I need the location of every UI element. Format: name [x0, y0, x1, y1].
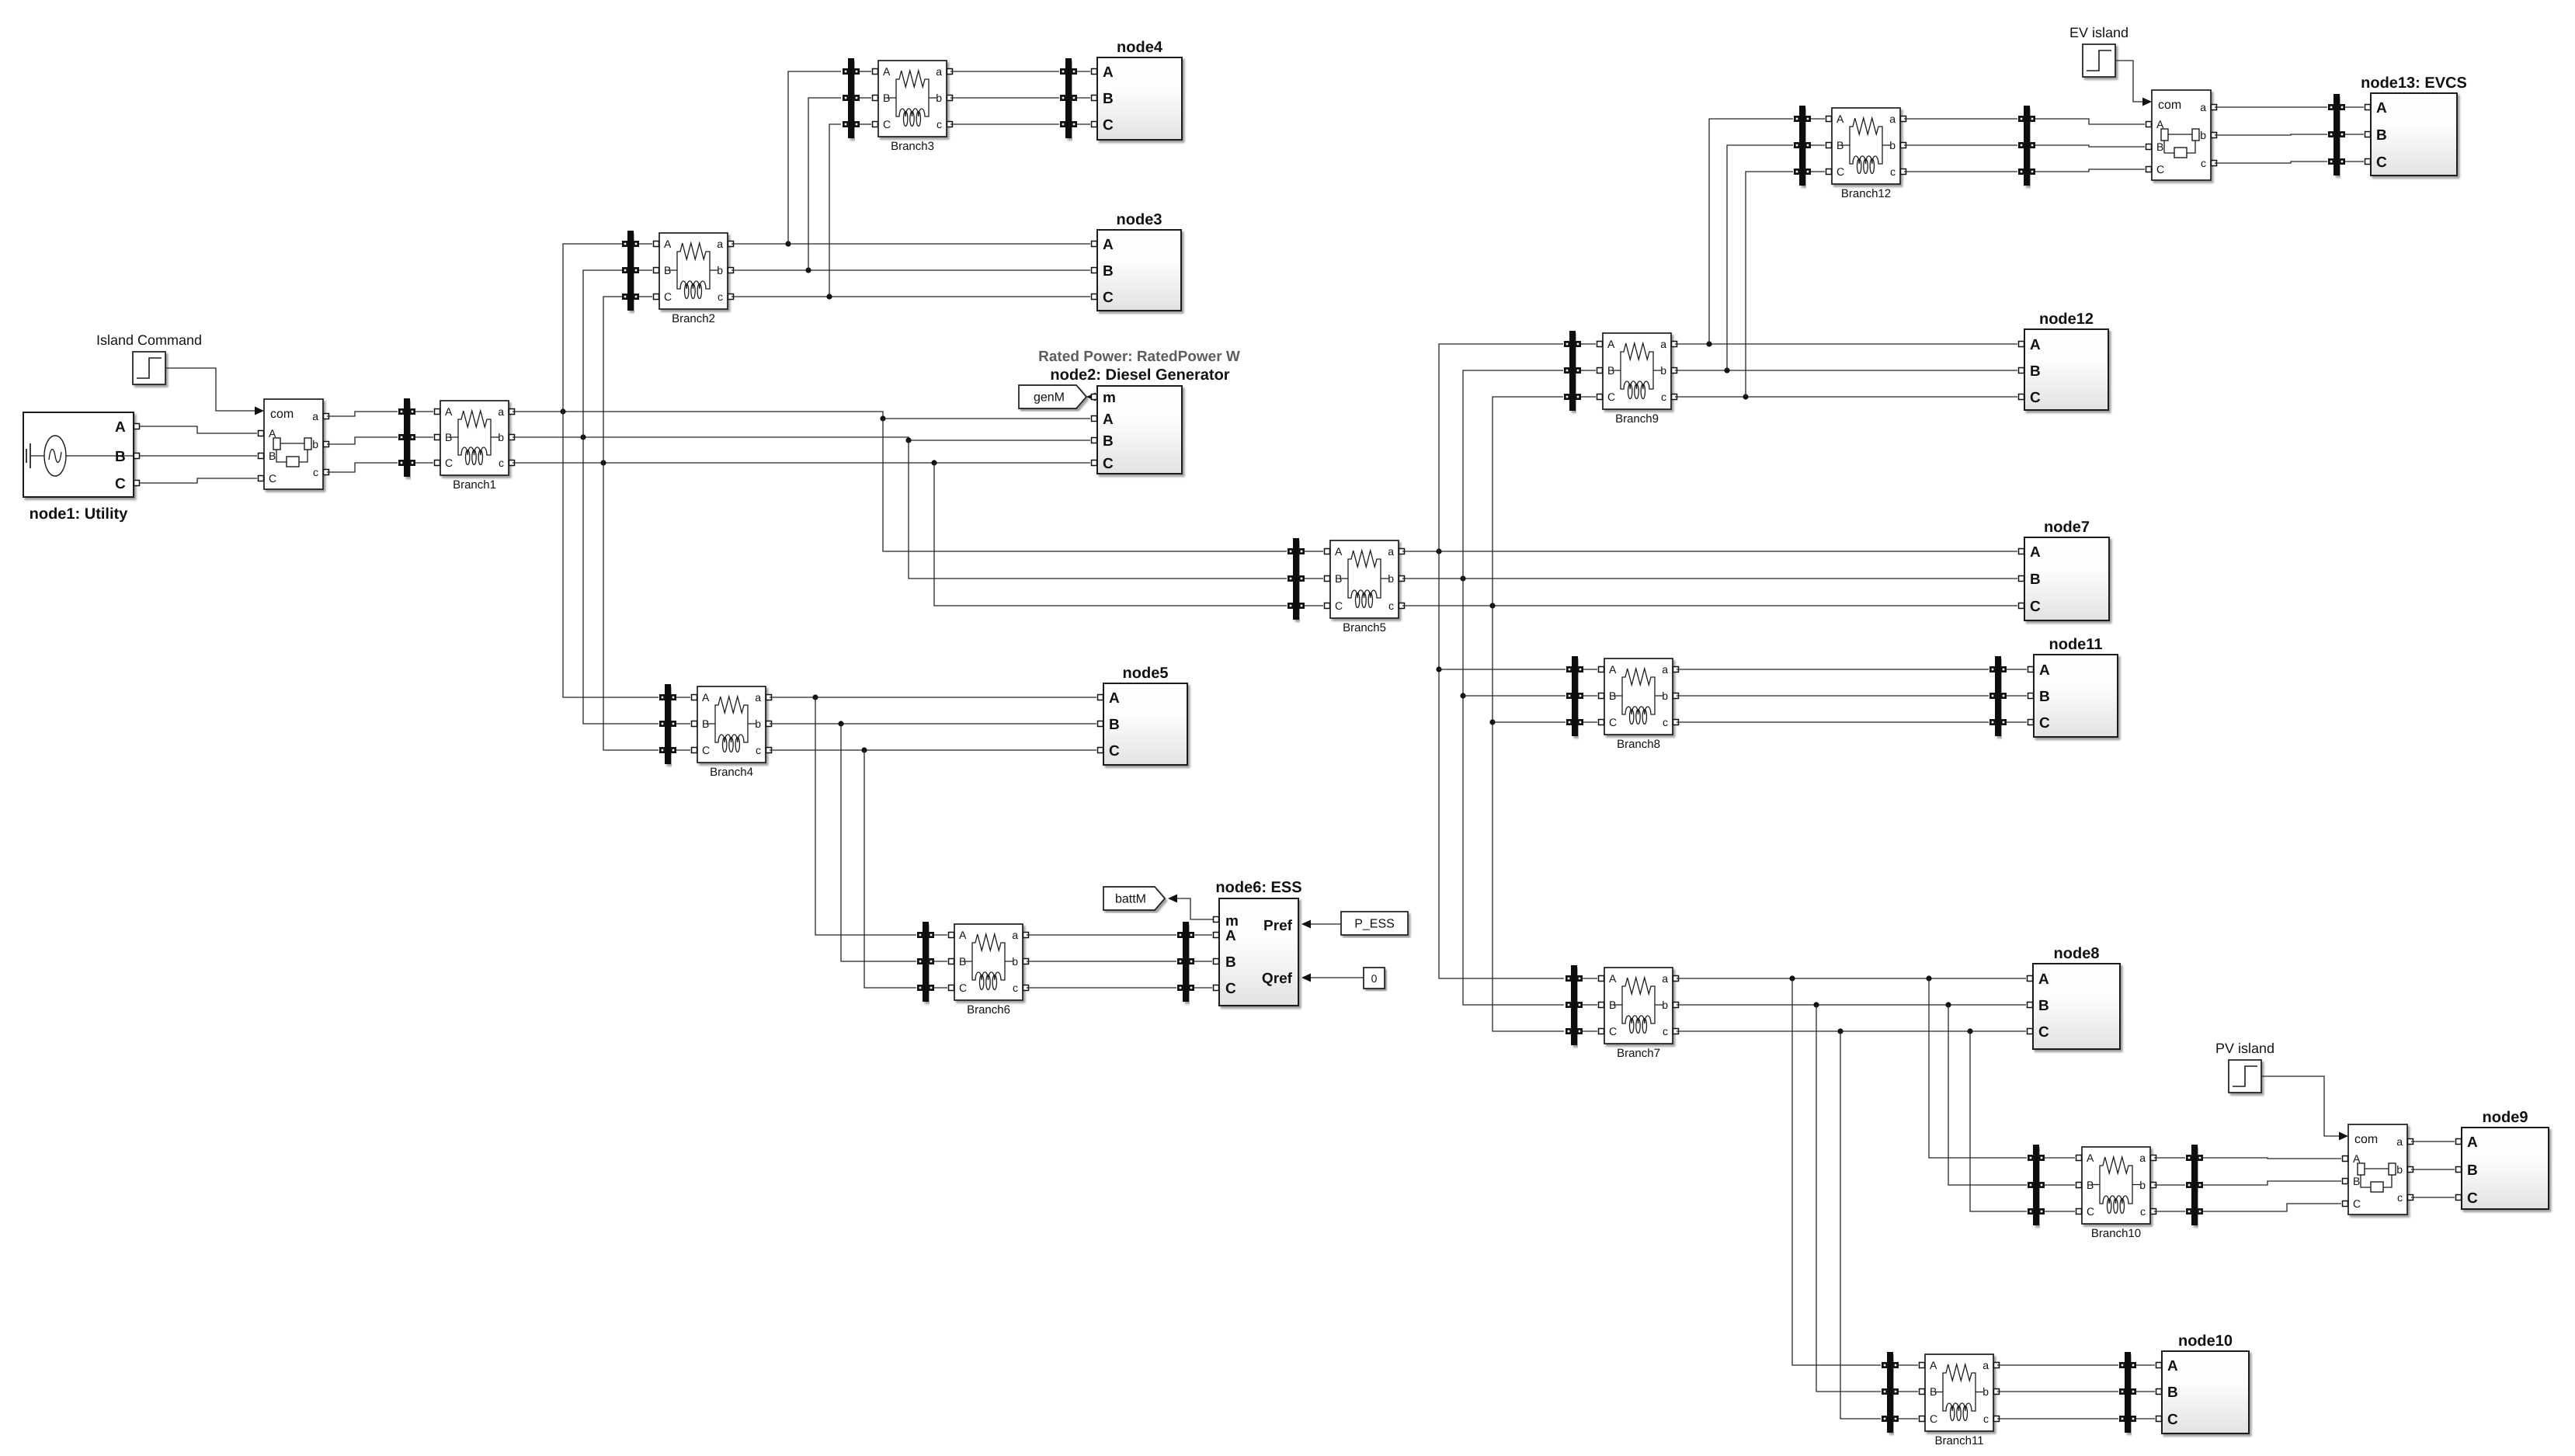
branch Branch11 (series RLC branch block) — [1920, 1354, 2000, 1447]
branch Branch7 (series RLC branch block) — [1599, 968, 1679, 1060]
wire com1.c->bus1.C — [327, 463, 398, 472]
svg-text:Branch2: Branch2 — [672, 312, 715, 325]
svg-text:B: B — [1335, 572, 1342, 585]
arrowhead into node6 Qref — [1301, 974, 1311, 982]
svg-text:B: B — [1103, 433, 1114, 450]
wire PVisland->com3.com — [2261, 1076, 2339, 1136]
svg-text:B: B — [1103, 263, 1114, 280]
subsystem node13 (load node block) — [2361, 75, 2467, 175]
wire bus12L.B->Branch12.B — [1811, 144, 1825, 146]
wire riser A bus10L — [1929, 978, 2027, 1158]
svg-text:c: c — [1663, 716, 1668, 728]
svg-text:C: C — [1609, 716, 1617, 728]
svg-text:b: b — [1662, 690, 1668, 702]
wire bus10R.B->com3.B — [2203, 1181, 2341, 1185]
wire bus4.C->Branch4.C — [676, 749, 690, 751]
wire bus6L.C->Branch6.C — [934, 987, 947, 989]
wire bus6L.A->Branch6.A — [934, 934, 947, 936]
node2 m port square — [1092, 394, 1097, 400]
wire Branch6.b->bus6R.B — [1027, 961, 1176, 962]
svg-text:a: a — [312, 410, 318, 422]
wire bus3L.A->Branch3.A — [860, 71, 871, 72]
wire riser B bus3L — [808, 98, 841, 270]
svg-text:node3: node3 — [1117, 211, 1162, 228]
step source IslandCommand — [96, 332, 202, 384]
svg-text:b: b — [1012, 955, 1018, 968]
svg-text:C: C — [2353, 1197, 2361, 1210]
wire bus11R.B->node10.B — [2136, 1391, 2155, 1392]
wire bus12R.B->com2.B — [2035, 145, 2145, 147]
arrowhead into battM tag — [1168, 895, 1177, 903]
wire riser C bus5L — [934, 463, 1287, 606]
wire Branch2.a->node3.A — [731, 241, 1090, 246]
wire bus13.A->node13.A — [2345, 106, 2364, 108]
svg-text:node4: node4 — [1117, 39, 1163, 56]
wire com1.b->bus1.B — [327, 437, 398, 444]
svg-text:node8: node8 — [2054, 945, 2100, 962]
svg-text:node7: node7 — [2044, 519, 2090, 536]
subsystem node2 (load node block) — [1092, 386, 1183, 474]
svg-text:B: B — [1607, 364, 1614, 377]
wire Branch2.c->node3.C — [731, 294, 1090, 299]
step source EVisland — [2069, 25, 2128, 77]
wire com3.b->node9.B — [2411, 1169, 2455, 1170]
svg-text:C: C — [1837, 165, 1844, 178]
svg-text:a: a — [1983, 1359, 1989, 1371]
branch Branch9 (series RLC branch block) — [1597, 333, 1677, 426]
wire bus13.B->node13.B — [2345, 134, 2364, 135]
svg-text:A: A — [1109, 690, 1120, 707]
wire com3.a->node9.A — [2411, 1141, 2455, 1142]
wire bus10R.A->com3.A — [2203, 1158, 2341, 1159]
svg-text:C: C — [269, 472, 276, 485]
svg-text:genM: genM — [1034, 391, 1065, 405]
wire riser A bus11L — [1792, 978, 1881, 1365]
svg-text:c: c — [937, 118, 942, 130]
svg-text:Branch10: Branch10 — [2091, 1227, 2141, 1240]
breaker com2 (three-phase breaker "com") — [2146, 90, 2217, 180]
svg-text:battM: battM — [1115, 893, 1146, 906]
branch Branch1 (series RLC branch block) — [435, 401, 515, 492]
svg-text:Qref: Qref — [1262, 971, 1293, 987]
svg-text:C: C — [2039, 715, 2050, 731]
svg-text:b: b — [2200, 129, 2206, 141]
svg-text:C: C — [2038, 1024, 2049, 1041]
svg-text:com: com — [270, 408, 294, 421]
svg-text:A: A — [2039, 662, 2050, 679]
wire node6.m->battM — [1177, 898, 1213, 919]
subsystem node7 (load node block) — [2019, 519, 2110, 620]
wire bus7L.A->Branch7.A — [1583, 978, 1597, 979]
wire bus2.A->Branch2.A — [639, 243, 652, 245]
svg-text:B: B — [2030, 572, 2041, 588]
wire Branch4.b->node5.B — [770, 721, 1096, 726]
wire bus6R.A->node6.A — [1194, 934, 1212, 936]
wire Branch3.c->bus3R.C — [950, 123, 1059, 125]
svg-text:c: c — [1663, 1025, 1668, 1037]
bus bus9L (three-phase busbar) — [1564, 331, 1581, 411]
arrowhead into com1 com — [255, 407, 264, 415]
svg-text:A: A — [1225, 928, 1236, 944]
svg-text:A: A — [2467, 1135, 2478, 1151]
wire bus3R.C->node4.C — [1077, 123, 1090, 125]
bus bus1 (three-phase busbar) — [398, 398, 415, 477]
svg-text:c: c — [1661, 391, 1666, 403]
bus bus10R (three-phase busbar) — [2186, 1145, 2203, 1225]
svg-text:a: a — [1388, 545, 1394, 558]
wire Branch4.a->node5.A — [770, 694, 1096, 700]
svg-text:B: B — [883, 92, 890, 104]
wire bus11L.A->Branch11.A — [1899, 1364, 1918, 1366]
svg-text:b: b — [498, 431, 504, 443]
wire Branch1.b->node2.B — [513, 434, 1090, 443]
wire Branch5.c->node7.C — [1402, 603, 2017, 608]
svg-text:c: c — [718, 290, 723, 303]
svg-text:A: A — [1103, 412, 1114, 428]
wire Branch3.b->bus3R.B — [950, 97, 1059, 99]
svg-text:C: C — [1103, 456, 1114, 472]
svg-text:c: c — [1388, 599, 1394, 612]
svg-text:A: A — [1335, 545, 1343, 558]
wire Branch10.b->bus10R.B — [2154, 1184, 2185, 1186]
wire Branch3.a->bus3R.A — [950, 71, 1059, 72]
bus bus11R (three-phase busbar) — [2119, 1352, 2136, 1433]
wire bus7L.B->Branch7.B — [1583, 1004, 1597, 1006]
bus bus12L (three-phase busbar) — [1794, 106, 1811, 186]
svg-text:A: A — [1607, 338, 1615, 350]
wire bus5L.C->Branch5.C — [1305, 605, 1323, 606]
svg-text:a: a — [2396, 1135, 2403, 1148]
svg-text:node9: node9 — [2483, 1109, 2528, 1126]
bus bus5L (three-phase busbar) — [1287, 538, 1305, 620]
wire Branch8.c->bus_n11.C — [1677, 721, 1989, 723]
wire bus11L.C->Branch11.C — [1899, 1418, 1918, 1420]
wire bus8L.A->Branch8.A — [1583, 669, 1597, 670]
svg-text:A: A — [2167, 1358, 2178, 1374]
wire bus3L.C->Branch3.C — [860, 123, 871, 125]
wire Branch11.a->bus11R.A — [1997, 1364, 2118, 1366]
svg-text:A: A — [1609, 663, 1617, 676]
svg-text:B: B — [1609, 999, 1616, 1011]
svg-text:a: a — [2139, 1152, 2146, 1164]
bus bus10L (three-phase busbar) — [2028, 1145, 2045, 1225]
svg-text:b: b — [1660, 364, 1666, 377]
svg-text:A: A — [2376, 100, 2387, 116]
wire Branch2.b->node3.B — [731, 267, 1090, 273]
wire bus6L.B->Branch6.B — [934, 961, 947, 962]
svg-text:Branch8: Branch8 — [1617, 738, 1660, 751]
svg-text:node5: node5 — [1123, 665, 1169, 682]
wire bus_n11.B->node11.B — [2007, 695, 2027, 697]
wire bus9L.C->Branch9.C — [1581, 396, 1596, 398]
svg-text:B: B — [702, 718, 709, 730]
breaker com3 (three-phase breaker "com") — [2343, 1124, 2413, 1214]
svg-text:C: C — [2030, 390, 2041, 406]
wire com2.b->bus13.B — [2215, 134, 2327, 135]
wire bus6R.C->node6.C — [1194, 987, 1212, 989]
wire Branch5.b->node7.B — [1402, 575, 2017, 581]
branch Branch5 (series RLC branch block) — [1325, 540, 1405, 634]
svg-text:B: B — [445, 431, 452, 443]
svg-text:node2: Diesel Generator: node2: Diesel Generator — [1050, 367, 1229, 384]
wire bus5L.B->Branch5.B — [1305, 578, 1323, 579]
wire bus2.B->Branch2.B — [639, 269, 652, 271]
wire tap A->bus8L — [1439, 669, 1566, 670]
wire bus11L.B->Branch11.B — [1899, 1391, 1918, 1392]
step source PVisland — [2215, 1041, 2274, 1093]
svg-text:A: A — [2030, 337, 2041, 353]
bus bus2 (three-phase busbar) — [622, 231, 639, 311]
arrowhead into com2 com — [2142, 98, 2152, 106]
svg-text:PV island: PV island — [2215, 1041, 2274, 1056]
wire Branch11.b->bus11R.B — [1997, 1391, 2118, 1392]
wire Branch7.c->node8.C — [1677, 1028, 2026, 1034]
bus bus_n11 (three-phase busbar) — [1989, 656, 2007, 736]
breaker com1 (three-phase breaker "com") — [259, 399, 329, 489]
bus bus3R (three-phase busbar) — [1060, 58, 1077, 138]
svg-text:B: B — [959, 955, 966, 968]
wire bus8L.C->Branch8.C — [1583, 721, 1597, 723]
svg-text:A: A — [1609, 972, 1617, 985]
subsystem node4 (load node block) — [1092, 39, 1183, 140]
svg-text:a: a — [936, 65, 942, 78]
svg-text:A: A — [2030, 544, 2041, 561]
svg-text:C: C — [1103, 290, 1114, 306]
svg-text:A: A — [1837, 113, 1844, 125]
svg-text:Pref: Pref — [1263, 918, 1293, 934]
svg-text:C: C — [2087, 1205, 2094, 1218]
branch Branch4 (series RLC branch block) — [692, 686, 772, 779]
svg-text:b: b — [1662, 999, 1668, 1011]
wire com2.a->bus13.A — [2215, 106, 2327, 108]
svg-text:B: B — [1837, 139, 1844, 151]
svg-text:c: c — [2140, 1205, 2146, 1218]
wire Branch6.a->bus6R.A — [1027, 934, 1176, 936]
wire bus10L.A->Branch10.A — [2045, 1157, 2075, 1159]
wire bus4.B->Branch4.B — [676, 723, 690, 725]
svg-text:A: A — [1930, 1359, 1937, 1371]
svg-text:A: A — [1103, 237, 1114, 253]
constant zero value 0 — [1364, 968, 1385, 989]
wire Branch7.a->node8.A — [1677, 975, 2026, 981]
wire riser B bus6L — [841, 724, 916, 961]
svg-text:B: B — [2087, 1179, 2094, 1191]
wire Branch1.a->node2.A — [513, 408, 1090, 421]
svg-text:a: a — [1660, 338, 1666, 350]
svg-text:B: B — [2156, 141, 2163, 153]
wire bus1.A->Branch1.A — [415, 411, 433, 412]
wire EVisland->com2.com — [2116, 61, 2142, 102]
svg-text:b: b — [1983, 1385, 1989, 1398]
wire bus3L.B->Branch3.B — [860, 97, 871, 99]
wire riser B bus11L — [1816, 1005, 1881, 1392]
svg-text:A: A — [883, 65, 891, 78]
bus bus7L (three-phase busbar) — [1566, 965, 1583, 1045]
wire Branch9.b->node12.B — [1675, 367, 2017, 373]
bus bus4 (three-phase busbar) — [659, 684, 676, 764]
svg-text:B: B — [1225, 954, 1236, 971]
wire Branch12.a->bus12R.A — [1904, 118, 2017, 120]
wire com2.c->bus13.C — [2215, 162, 2327, 163]
svg-text:Branch5: Branch5 — [1343, 621, 1386, 634]
svg-text:B: B — [1609, 690, 1616, 702]
wire bus12L.C->Branch12.C — [1811, 171, 1825, 172]
wire Branch8.a->bus_n11.A — [1677, 669, 1989, 670]
svg-text:A: A — [702, 691, 710, 704]
arrowhead into node6 Pref — [1301, 920, 1311, 929]
svg-text:c: c — [1983, 1413, 1989, 1425]
svg-text:node12: node12 — [2039, 311, 2094, 328]
wire Branch4.c->node5.C — [770, 747, 1096, 752]
svg-text:C: C — [2030, 599, 2041, 615]
svg-text:b: b — [936, 92, 942, 104]
svg-text:Branch12: Branch12 — [1841, 187, 1891, 200]
svg-text:A: A — [445, 405, 453, 418]
svg-text:a: a — [755, 691, 761, 704]
svg-text:C: C — [2467, 1190, 2478, 1207]
wire com1.a->bus1.A — [327, 412, 398, 416]
svg-text:B: B — [2039, 689, 2050, 705]
svg-text:b: b — [755, 718, 761, 730]
svg-text:C: C — [1103, 117, 1114, 134]
svg-text:node10: node10 — [2178, 1333, 2233, 1350]
svg-text:EV island: EV island — [2069, 25, 2128, 40]
svg-text:C: C — [2167, 1412, 2178, 1428]
svg-text:Island Command: Island Command — [96, 332, 202, 348]
wire node2.m->genM — [1087, 396, 1093, 398]
svg-text:c: c — [1013, 982, 1018, 994]
svg-text:b: b — [2396, 1163, 2403, 1176]
svg-text:Rated Power: RatedPower W: Rated Power: RatedPower W — [1038, 349, 1240, 365]
wire bus12R.A->com2.A — [2035, 119, 2145, 124]
bus bus11L (three-phase busbar) — [1882, 1352, 1899, 1433]
wire zero->node6.Qref — [1311, 977, 1364, 978]
node1 output ports A B C — [134, 424, 140, 486]
branch Branch10 (series RLC branch block) — [2076, 1147, 2156, 1240]
wire riser C bus6L — [864, 750, 916, 988]
svg-text:c: c — [2201, 157, 2206, 169]
bus bus3L (three-phase busbar) — [843, 58, 860, 138]
svg-text:b: b — [717, 264, 723, 276]
bus bus6R (three-phase busbar) — [1177, 922, 1194, 1002]
bus bus12R (three-phase busbar) — [2018, 106, 2035, 186]
wire bus4.A->Branch4.A — [676, 697, 690, 698]
wire trunk B — [1460, 370, 1564, 1005]
svg-text:C: C — [702, 744, 710, 756]
wire bus11R.A->node10.A — [2136, 1364, 2155, 1366]
wire riser A bus3L — [788, 71, 841, 244]
subsystem node8 (load node block) — [2028, 945, 2121, 1049]
wire riser B bus12L — [1727, 145, 1793, 370]
goto tag genM — [1019, 385, 1086, 408]
wire bus_n11.A->node11.A — [2007, 669, 2027, 670]
wire riser C bus2/bus4 — [603, 297, 659, 750]
svg-text:B: B — [1103, 91, 1114, 107]
svg-text:0: 0 — [1371, 972, 1378, 985]
svg-text:Branch6: Branch6 — [967, 1003, 1010, 1016]
svg-text:b: b — [1889, 139, 1896, 151]
wire Branch9.a->node12.A — [1675, 341, 2017, 346]
svg-text:c: c — [313, 466, 318, 478]
wire riser A bus12L — [1709, 119, 1793, 344]
wire riser B bus10L — [1948, 1005, 2027, 1185]
svg-text:B: B — [115, 449, 126, 465]
svg-text:B: B — [664, 264, 671, 276]
node2 labels: Rated Power annotation + name + m port — [1038, 349, 1240, 406]
wire bus_n11.C->node11.C — [2007, 721, 2027, 723]
node6 port squares — [1214, 917, 1219, 991]
svg-text:c: c — [499, 457, 504, 469]
svg-text:m: m — [1225, 913, 1239, 930]
wire Branch1.c->node2.C — [513, 460, 1090, 465]
svg-text:m: m — [1103, 390, 1116, 406]
wire bus3R.A->node4.A — [1077, 71, 1090, 72]
svg-text:C: C — [2376, 155, 2387, 171]
arrowhead into com3 com — [2339, 1132, 2348, 1141]
branch Branch3 (series RLC branch block) — [873, 61, 953, 153]
svg-text:b: b — [312, 438, 318, 450]
svg-text:com: com — [2158, 99, 2181, 112]
wire Branch8.b->bus_n11.B — [1677, 695, 1989, 697]
svg-text:A: A — [115, 419, 126, 436]
wire tap C->bus8L — [1493, 721, 1566, 723]
svg-text:a: a — [1889, 113, 1896, 125]
svg-text:Branch4: Branch4 — [710, 766, 753, 779]
svg-text:P_ESS: P_ESS — [1354, 918, 1395, 931]
wire riser A bus5L — [883, 419, 1287, 551]
svg-text:c: c — [2397, 1191, 2403, 1204]
source node1: Utility (three-phase source subsystem) — [23, 412, 134, 523]
wire Branch5.a->node7.A — [1402, 548, 2017, 554]
wire IslandCommand->com1.com — [166, 368, 255, 411]
svg-text:C: C — [1225, 981, 1236, 997]
svg-text:Branch7: Branch7 — [1617, 1047, 1660, 1060]
svg-text:node6: ESS: node6: ESS — [1215, 879, 1301, 896]
constant P_ESS value P_ESS — [1341, 912, 1408, 935]
bus bus6L (three-phase busbar) — [917, 922, 934, 1002]
wire P_ESS->node6.Pref — [1311, 923, 1341, 925]
svg-text:B: B — [2167, 1385, 2178, 1401]
wire bus10R.C->com3.C — [2203, 1204, 2341, 1211]
subsystem node5 (load node block) — [1098, 665, 1188, 765]
bus bus8L (three-phase busbar) — [1566, 656, 1583, 736]
svg-text:B: B — [269, 450, 276, 462]
wire bus12L.A->Branch12.A — [1811, 118, 1825, 120]
subsystem node12 (load node block) — [2019, 311, 2109, 410]
svg-text:B: B — [2038, 998, 2049, 1014]
svg-text:B: B — [2030, 363, 2041, 380]
svg-text:C: C — [883, 118, 891, 130]
svg-text:node1: Utility: node1: Utility — [30, 506, 129, 523]
svg-text:c: c — [1890, 165, 1896, 178]
wire bus9L.A->Branch9.A — [1581, 343, 1596, 345]
svg-text:a: a — [2200, 101, 2206, 113]
svg-text:B: B — [2467, 1162, 2478, 1179]
wire bus12R.C->com2.C — [2035, 169, 2145, 172]
wire riser A bus6L — [815, 697, 916, 935]
wire bus2.C->Branch2.C — [639, 296, 652, 297]
wire bus1.C->Branch1.C — [415, 462, 433, 464]
wire Branch6.c->bus6R.C — [1027, 987, 1176, 989]
wire bus5L.A->Branch5.A — [1305, 551, 1323, 552]
wire bus1.B->Branch1.B — [415, 436, 433, 438]
subsystem node3 (load node block) — [1092, 211, 1182, 311]
svg-text:a: a — [717, 238, 723, 250]
wire Branch7.b->node8.B — [1677, 1002, 2026, 1007]
svg-text:C: C — [1607, 391, 1615, 403]
wire trunk A (bus9L..bus7L) — [1436, 344, 1564, 978]
wire riser C bus10L — [1970, 1031, 2027, 1211]
